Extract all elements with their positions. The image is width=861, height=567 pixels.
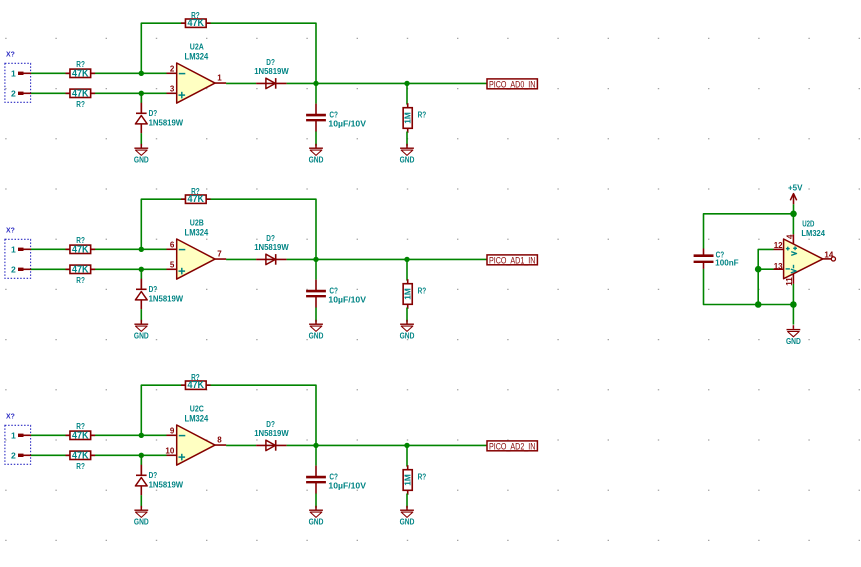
svg-text:D?: D?	[149, 109, 158, 118]
svg-text:13: 13	[774, 262, 783, 271]
svg-text:1N5819W: 1N5819W	[254, 429, 289, 438]
svg-text:47K: 47K	[188, 18, 205, 29]
svg-text:U2D: U2D	[802, 218, 814, 228]
svg-text:1M: 1M	[403, 474, 413, 486]
svg-text:GND: GND	[786, 337, 801, 346]
svg-text:3: 3	[170, 85, 175, 94]
svg-text:10µF/10V: 10µF/10V	[328, 296, 366, 305]
svg-text:GND: GND	[309, 331, 324, 340]
svg-text:14: 14	[824, 251, 833, 260]
svg-text:LM324: LM324	[185, 227, 209, 237]
svg-text:R?: R?	[76, 462, 85, 471]
svg-text:GND: GND	[400, 155, 415, 164]
svg-text:4: 4	[786, 234, 795, 239]
svg-text:47K: 47K	[72, 430, 89, 441]
svg-text:D?: D?	[149, 285, 158, 294]
svg-text:47K: 47K	[188, 194, 205, 205]
svg-text:7: 7	[217, 249, 222, 258]
svg-text:C?: C?	[329, 287, 338, 296]
svg-text:1: 1	[217, 73, 222, 82]
svg-text:12: 12	[774, 241, 783, 250]
svg-text:9: 9	[170, 427, 175, 436]
svg-text:1: 1	[11, 68, 16, 78]
svg-text:GND: GND	[309, 155, 324, 164]
svg-text:PICO_AD1_IN: PICO_AD1_IN	[489, 255, 536, 265]
svg-text:X?: X?	[6, 413, 15, 420]
svg-text:PICO_AD0_IN: PICO_AD0_IN	[489, 79, 536, 89]
svg-text:2: 2	[11, 450, 16, 460]
svg-text:GND: GND	[134, 331, 149, 340]
svg-text:47K: 47K	[72, 244, 89, 255]
svg-text:5: 5	[170, 261, 175, 270]
svg-text:R?: R?	[76, 422, 85, 431]
svg-text:47K: 47K	[72, 450, 89, 461]
svg-text:2: 2	[11, 88, 16, 98]
svg-text:X?: X?	[6, 51, 15, 58]
svg-text:R?: R?	[418, 473, 427, 482]
svg-text:R?: R?	[76, 100, 85, 109]
svg-text:1N5819W: 1N5819W	[254, 67, 289, 76]
svg-text:R?: R?	[76, 236, 85, 245]
svg-text:1M: 1M	[403, 288, 413, 300]
svg-text:PICO_AD2_IN: PICO_AD2_IN	[489, 441, 536, 451]
svg-text:+5V: +5V	[788, 183, 803, 192]
svg-text:GND: GND	[134, 155, 149, 164]
svg-text:6: 6	[170, 241, 175, 250]
svg-text:R?: R?	[191, 11, 200, 20]
svg-text:LM324: LM324	[185, 413, 209, 423]
svg-text:1N5819W: 1N5819W	[149, 480, 184, 489]
svg-text:U2C: U2C	[190, 403, 205, 413]
svg-text:C?: C?	[329, 111, 338, 120]
svg-text:R?: R?	[76, 276, 85, 285]
svg-text:1: 1	[11, 430, 16, 440]
svg-text:47K: 47K	[72, 68, 89, 79]
svg-text:1N5819W: 1N5819W	[149, 294, 184, 303]
svg-text:R?: R?	[76, 60, 85, 69]
svg-text:D?: D?	[266, 420, 275, 429]
svg-text:10: 10	[165, 447, 174, 456]
svg-text:D?: D?	[149, 471, 158, 480]
svg-text:11: 11	[785, 277, 794, 286]
svg-text:U2B: U2B	[190, 217, 204, 227]
svg-text:10µF/10V: 10µF/10V	[328, 482, 366, 491]
svg-text:GND: GND	[309, 517, 324, 526]
svg-text:LM324: LM324	[185, 51, 209, 61]
svg-text:R?: R?	[418, 111, 427, 120]
svg-text:R?: R?	[418, 287, 427, 296]
svg-text:GND: GND	[134, 517, 149, 526]
svg-text:47K: 47K	[188, 380, 205, 391]
svg-text:47K: 47K	[72, 264, 89, 275]
svg-text:1M: 1M	[403, 112, 413, 124]
svg-text:10µF/10V: 10µF/10V	[328, 120, 366, 129]
svg-text:GND: GND	[400, 331, 415, 340]
svg-text:2: 2	[170, 65, 175, 74]
svg-text:1: 1	[11, 244, 16, 254]
svg-text:GND: GND	[400, 517, 415, 526]
svg-text:D?: D?	[266, 58, 275, 67]
svg-text:R?: R?	[191, 187, 200, 196]
svg-text:D?: D?	[266, 234, 275, 243]
svg-text:47K: 47K	[72, 88, 89, 99]
svg-text:1N5819W: 1N5819W	[254, 243, 289, 252]
svg-text:2: 2	[11, 264, 16, 274]
svg-text:LM324: LM324	[801, 228, 825, 238]
svg-text:1N5819W: 1N5819W	[149, 118, 184, 127]
svg-text:X?: X?	[6, 227, 15, 234]
svg-text:R?: R?	[191, 373, 200, 382]
svg-text:8: 8	[217, 435, 222, 444]
svg-text:U2A: U2A	[190, 41, 205, 51]
svg-text:100nF: 100nF	[715, 258, 739, 267]
svg-text:C?: C?	[329, 473, 338, 482]
